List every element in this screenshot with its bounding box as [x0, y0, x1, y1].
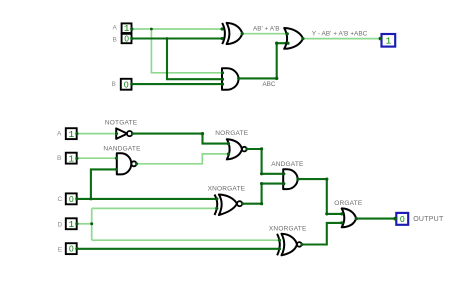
svg-text:1: 1 [124, 23, 130, 34]
svg-text:NANDGATE: NANDGATE [103, 146, 141, 153]
svg-text:B: B [112, 81, 116, 88]
svg-text:1: 1 [68, 129, 74, 140]
svg-text:A: A [113, 24, 118, 31]
svg-text:NOTGATE: NOTGATE [105, 119, 138, 126]
svg-text:XNORGATE: XNORGATE [269, 226, 307, 233]
svg-text:XNORGATE: XNORGATE [208, 185, 246, 192]
svg-text:0: 0 [69, 194, 74, 204]
svg-text:1: 1 [68, 153, 74, 164]
svg-text:A: A [57, 131, 62, 138]
svg-text:E: E [58, 246, 63, 253]
svg-text:D: D [58, 221, 63, 228]
svg-text:1: 1 [68, 219, 74, 230]
svg-text:AB' + A'B: AB' + A'B [253, 25, 280, 32]
svg-text:0: 0 [124, 79, 129, 89]
svg-text:ABC: ABC [262, 81, 276, 88]
svg-text:NORGATE: NORGATE [215, 130, 249, 137]
svg-text:OUTPUT: OUTPUT [413, 216, 444, 223]
svg-text:0: 0 [400, 214, 405, 224]
svg-text:ANDGATE: ANDGATE [271, 161, 304, 168]
svg-text:C: C [58, 196, 63, 203]
svg-text:ORGATE: ORGATE [334, 200, 363, 207]
svg-text:0: 0 [69, 244, 74, 254]
svg-text:1: 1 [386, 36, 392, 47]
svg-text:B: B [113, 37, 117, 44]
svg-text:0: 0 [124, 34, 129, 43]
svg-text:Y - AB' + A'B +ABC: Y - AB' + A'B +ABC [312, 30, 368, 37]
svg-text:B: B [57, 155, 61, 162]
